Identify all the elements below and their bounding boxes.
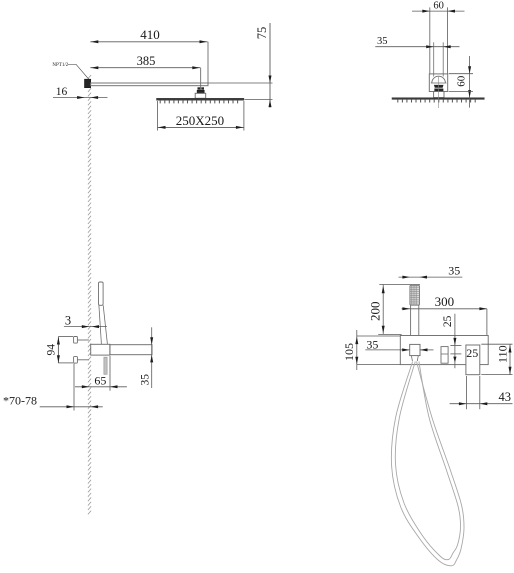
ball joint nut (dark): [434, 85, 444, 88]
svg-text:75: 75: [255, 27, 269, 40]
svg-text:60: 60: [433, 0, 444, 11]
dimension 43 line: [450, 403, 513, 405]
dimension 110 extension top: [481, 343, 512, 345]
dimension 25 tick upper: [450, 345, 461, 347]
svg-text:16: 16: [56, 86, 68, 98]
ball joint housing: [429, 74, 447, 92]
dimension 200 line (vertical): [382, 284, 384, 334]
dimension 35 socket line: [365, 349, 409, 351]
holder plate: [400, 336, 488, 365]
dimension 105 extension bottom: [357, 364, 401, 366]
dimension 110 extension bottom: [481, 374, 512, 376]
ball joint dome: [432, 76, 446, 83]
dimension 60 top line: [412, 10, 465, 12]
dimension 43 extension right: [479, 376, 481, 409]
wall flange (shower arm mount): [85, 79, 91, 87]
svg-text:60: 60: [456, 75, 468, 87]
dimension 200 extension bottom: [378, 333, 402, 335]
dimension 110 line (vertical): [509, 344, 511, 374]
dimension 75 extension bottom: [245, 99, 273, 101]
shower head nozzles: [160, 100, 237, 103]
dimension 250X250 extension right: [243, 101, 245, 131]
svg-text:35: 35: [366, 338, 378, 352]
svg-text:35: 35: [448, 263, 460, 277]
socket lower taper: [411, 356, 412, 361]
svg-text:3: 3: [65, 313, 71, 327]
hand shower hose (outer edge): [391, 362, 464, 566]
valve trim box: [91, 344, 110, 355]
dimension 410 extension line: [207, 42, 209, 83]
shower arm: [91, 83, 208, 86]
svg-text:NPT1/2: NPT1/2: [52, 63, 68, 68]
dimension 25 tick lower: [450, 353, 461, 355]
spout bar: [110, 345, 152, 355]
dimension 25 line (vertical): [454, 314, 456, 369]
dimension 300 line: [402, 308, 487, 310]
swivel nut (dark): [197, 90, 204, 93]
dimension 94 extension top: [58, 336, 73, 338]
dimension 35 ceiling line: [375, 46, 459, 48]
svg-text:200: 200: [367, 301, 382, 321]
in-wall bracket upper lug: [74, 337, 78, 344]
dimension 250X250 line: [158, 126, 244, 128]
svg-text:94: 94: [46, 344, 58, 356]
dimension 105 line (vertical): [356, 330, 358, 370]
dimension 65 extension line: [109, 356, 111, 391]
dimension 35 handshower line: [399, 276, 463, 278]
dimension 75 extension top: [208, 82, 273, 84]
svg-text:385: 385: [137, 54, 156, 68]
svg-text:35: 35: [377, 36, 388, 47]
hand shower lower taper: [99, 305, 102, 344]
NPT1/2 leader line: [68, 64, 90, 80]
svg-text:105: 105: [342, 343, 356, 361]
svg-text:110: 110: [495, 345, 509, 363]
svg-text:65: 65: [94, 373, 106, 387]
mixer knob box: [466, 345, 480, 375]
in-wall bracket lower lug: [74, 357, 78, 364]
svg-text:410: 410: [140, 27, 160, 42]
dimension 200 extension top: [379, 284, 420, 286]
wall section line (hatched): [88, 75, 91, 514]
hand shower spray head: [410, 285, 420, 305]
hand shower socket: [410, 344, 420, 355]
dimension 385 line: [90, 67, 200, 69]
dimension 250X250 extension left: [157, 101, 159, 131]
hand shower hose (inner edge): [395, 362, 460, 560]
dimension 385 extension line: [200, 68, 202, 90]
dimension 105 extension top: [357, 335, 401, 337]
lower mounting screw: [77, 359, 89, 361]
shower head connector: [195, 93, 206, 98]
dimension 60 right extension top: [449, 73, 473, 75]
dimension *70-78 line: [40, 406, 103, 408]
upper mounting screw: [77, 339, 89, 341]
dimension 35 spout line (vertical): [151, 327, 153, 388]
valve lever handle: [104, 357, 107, 374]
dimension 94 line (vertical): [57, 337, 59, 364]
svg-text:25: 25: [442, 315, 454, 327]
svg-text:300: 300: [435, 294, 455, 309]
ceiling arm cover column: [429, 7, 431, 74]
svg-text:*70-78: *70-78: [3, 394, 37, 408]
dimension 410 line: [90, 41, 207, 43]
dimension 94 extension bottom: [58, 362, 73, 364]
hand shower handle: [410, 305, 412, 344]
swivel ball upper (dark): [198, 87, 201, 89]
dimension 300 extension line: [486, 309, 488, 336]
ceiling head nozzles: [398, 99, 475, 102]
dimension 75 line (vertical): [269, 23, 271, 108]
ceiling shower head plate: [392, 98, 484, 100]
diverter knob: [441, 347, 448, 364]
dimension *70-78 extension line: [73, 364, 75, 411]
ceiling head centerline: [437, 76, 439, 108]
hand shower (docked, side view): [99, 282, 104, 305]
dimension 60 right extension bottom: [449, 90, 473, 92]
rain shower head plate (side view): [157, 98, 244, 100]
head stem connector: [434, 92, 444, 98]
svg-text:25: 25: [466, 346, 478, 360]
svg-text:35: 35: [139, 374, 151, 386]
dimension 3 line: [64, 326, 107, 328]
dimension 60 right line (vertical): [469, 56, 471, 108]
dimension 65 line: [75, 386, 127, 388]
dimension 16 line: [53, 97, 108, 99]
svg-text:250X250: 250X250: [176, 113, 224, 128]
ceiling water pipe: [433, 42, 435, 76]
svg-text:43: 43: [498, 390, 511, 404]
dimension 43 extension left: [465, 376, 467, 409]
